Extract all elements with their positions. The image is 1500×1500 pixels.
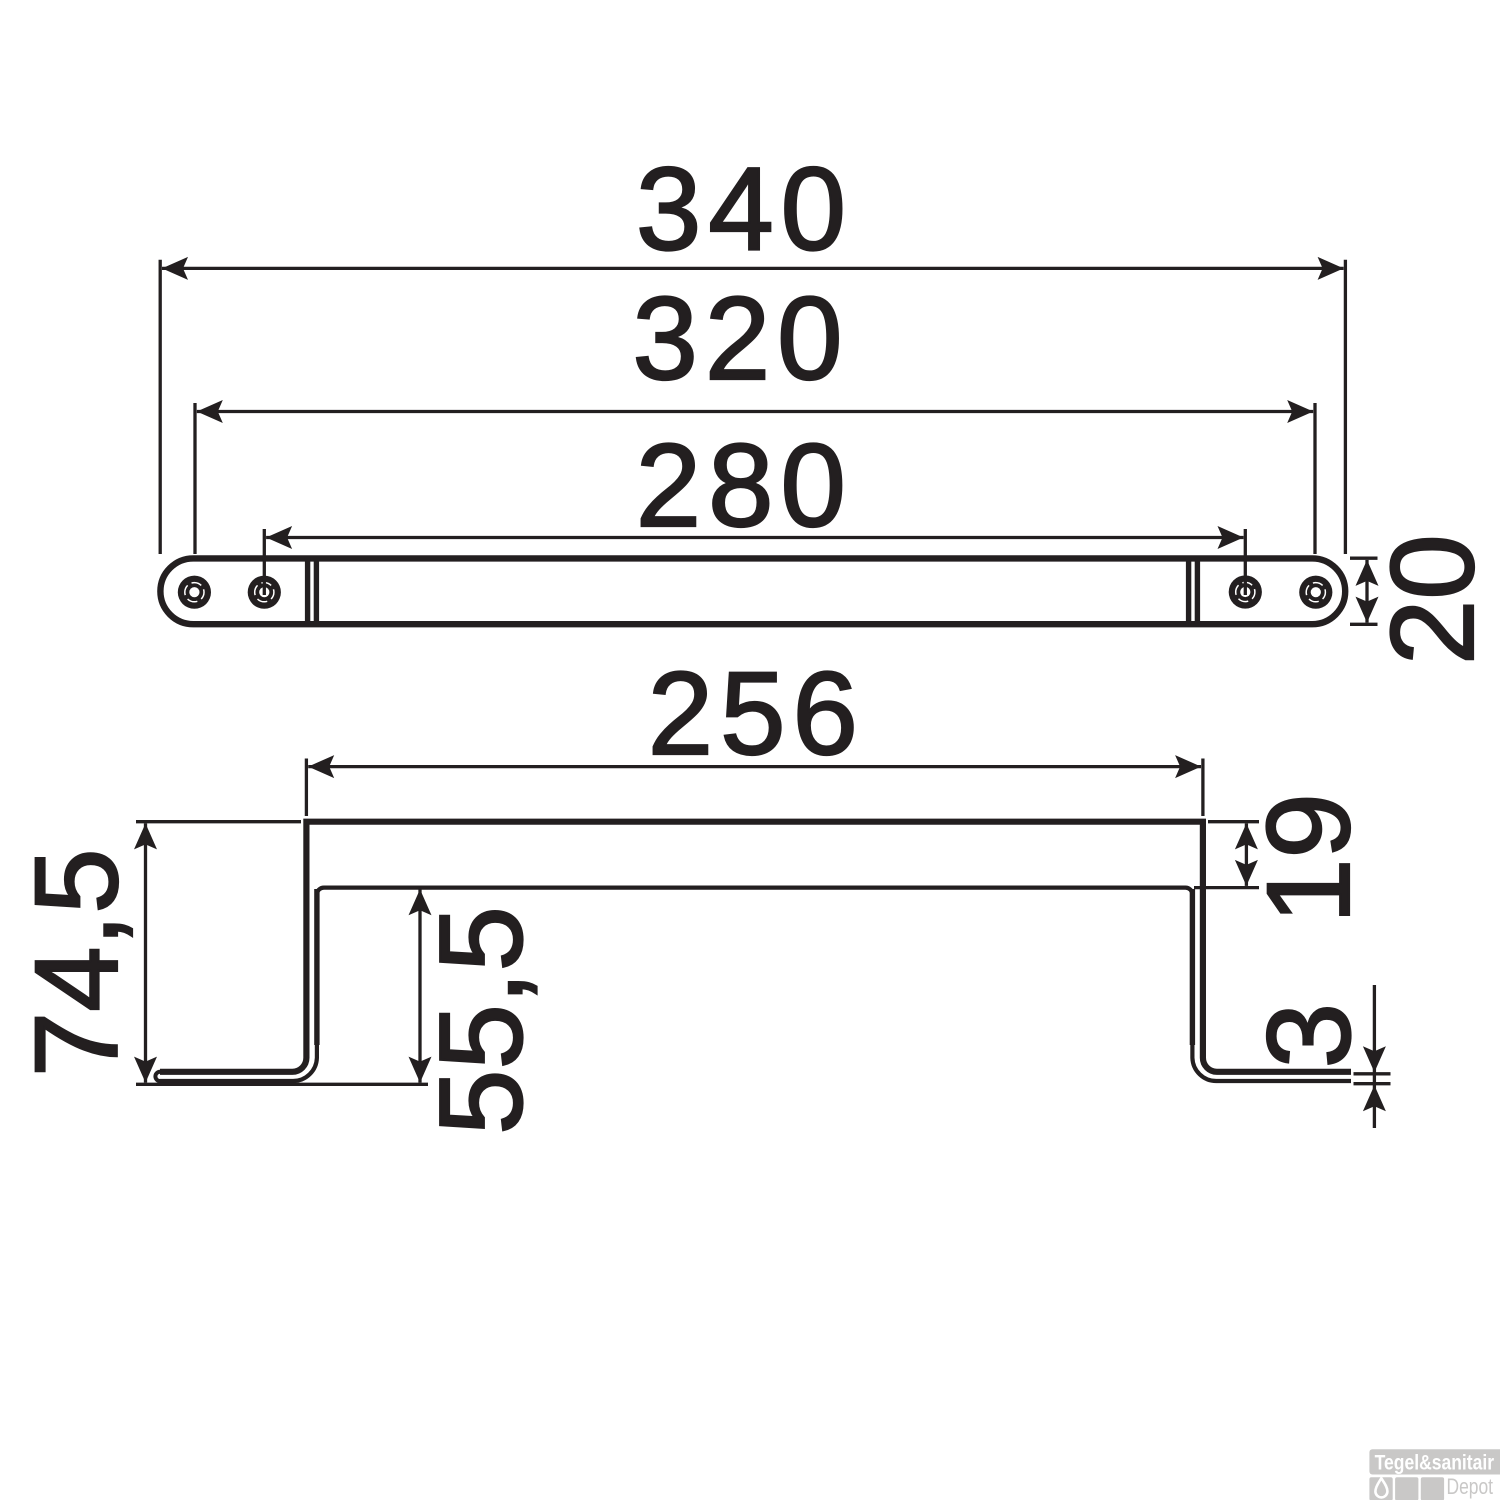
svg-text:256: 256 [648,648,865,779]
dim 256 arrow right [1175,755,1201,778]
dim 280 arrow right [1218,526,1244,549]
screw hole 4 (right outer) [1299,576,1332,609]
dim 320 line [197,410,1313,413]
dim 3 arrow down (above) [1363,1046,1386,1072]
dim 20 line [1365,560,1368,623]
dim 19 line [1245,823,1248,886]
dim 3 line [1373,985,1376,1128]
dim 74,5 line [144,823,147,1082]
logo square 1 [1369,1477,1392,1500]
left end-cap joint line a [305,558,310,625]
svg-text:74,5: 74,5 [11,848,142,1077]
dim 3 extension line bottom [1354,1082,1391,1085]
dim 320 arrow left [197,400,223,423]
left end-cap joint line b [314,558,319,625]
dim 19 arrow down [1235,860,1258,886]
svg-text:320: 320 [632,273,849,404]
dim 256 line [308,765,1201,768]
svg-text:340: 340 [636,144,853,275]
dim 3 arrow up (below) [1363,1085,1386,1111]
logo banner [1369,1449,1500,1474]
right end-cap joint line a [1186,558,1191,625]
left leg inner line (thicker overlay) [314,889,319,1045]
dim 55,5 arrow up [409,889,432,915]
screw hole 2 (left inner) [248,576,281,609]
svg-text:20: 20 [1367,534,1498,665]
dim 320 extension line right [1313,403,1316,554]
dim 20 extension line top [1350,557,1378,560]
dim 74,5 arrow down [134,1057,157,1083]
logo square 3 [1421,1477,1444,1500]
dim 55,5 arrow down [409,1057,432,1083]
dim 20 arrow up [1356,560,1379,586]
svg-text:Tegel&sanitair: Tegel&sanitair [1375,1451,1495,1475]
right end-cap joint line b [1195,558,1200,625]
svg-text:Depot: Depot [1447,1474,1494,1499]
dim 74,5 extension line top [136,820,301,823]
svg-text:280: 280 [636,420,853,551]
dim 74,5 arrow up [134,823,157,849]
dim 320 extension line left [193,403,196,554]
dim 280 extension line right (into hole 3) [1244,529,1247,595]
left foot end cap [155,1072,160,1081]
svg-text:55,5: 55,5 [415,906,546,1135]
screw hole 1 (left outer) [178,576,211,609]
dim 280 line [266,536,1243,539]
dim 340 line [162,267,1344,270]
right leg inner line (thicker overlay) [1190,889,1195,1045]
dim 55,5 line [418,889,421,1082]
dim 340 arrow left [162,257,188,280]
dim 280 arrow left [266,526,292,549]
dim 19 arrow up [1235,823,1258,849]
dim 280 extension line left (into hole 2) [263,529,266,595]
screw hole 3 (right inner) [1229,575,1262,608]
dim 19 extension line bottom [1194,886,1259,889]
bar outline (stadium shape) [160,558,1345,624]
dim 320 arrow right [1287,400,1313,423]
dim 256 arrow left [308,755,334,778]
dim 3 extension line top [1354,1072,1391,1075]
dim 340 extension line right [1344,260,1347,554]
svg-text:19: 19 [1243,793,1374,924]
dim 340 extension line left [159,260,162,554]
logo square 2 [1395,1477,1418,1500]
dim 20 extension line bottom [1350,623,1378,626]
dim 256 extension line right [1201,759,1204,817]
dim 74,5 / 55,5 extension line bottom [136,1083,428,1086]
svg-text:3: 3 [1244,1003,1375,1068]
dim 340 arrow right [1318,257,1344,280]
dim 256 extension line left [305,759,308,817]
logo water drop icon [1375,1478,1387,1497]
dim 19 extension line top [1208,820,1259,823]
dim 20 arrow down [1356,597,1379,623]
profile outer contour [160,822,1351,1072]
profile inner contour [160,888,1351,1081]
